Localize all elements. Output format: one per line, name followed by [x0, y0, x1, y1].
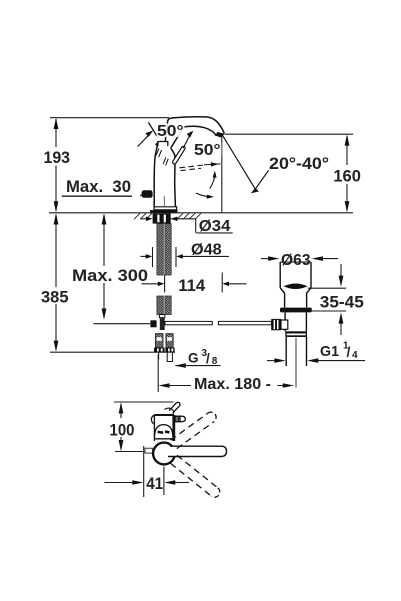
small arc right arrow — [196, 193, 211, 197]
svg-text:160: 160 — [333, 167, 361, 186]
svg-text:Max. 180 -: Max. 180 - — [194, 376, 271, 393]
mounting nut — [153, 213, 171, 223]
rod inlet box — [281, 320, 288, 329]
hose end right — [166, 334, 173, 348]
dimension 114 — [142, 273, 247, 293]
deck hatching left — [134, 213, 152, 219]
braided hoses lower segment — [157, 296, 163, 315]
spout left edge — [165, 122, 167, 142]
rod knurled nut at drain — [271, 319, 281, 330]
body collar bar — [158, 142, 168, 147]
100 top reference line — [114, 401, 174, 403]
svg-text:Max. 300: Max. 300 — [72, 266, 148, 285]
drain flange gasket — [280, 308, 312, 313]
dimension Max180 — [157, 355, 159, 392]
spout outer curve — [168, 117, 225, 134]
drain plug lens — [284, 283, 308, 289]
svg-text:41: 41 — [146, 474, 163, 493]
arrow 160 top — [345, 134, 350, 145]
braided hoses upper segment — [157, 224, 163, 275]
dimension Ø63 — [261, 258, 274, 260]
rod cross fitting — [160, 318, 165, 330]
faucet body top view — [151, 408, 185, 441]
handle direction line + arrow — [183, 135, 190, 148]
body right edge — [171, 148, 176, 207]
pop-up knob left — [142, 190, 153, 198]
svg-text:4: 4 — [352, 350, 358, 361]
dimension 385 vertical line — [55, 215, 57, 287]
385 bottom reference line — [50, 351, 175, 353]
handle dashed pill down — [171, 455, 220, 497]
spout outlet level line (160 top ref) — [225, 133, 353, 135]
drain lower nut — [285, 331, 307, 337]
svg-text:100: 100 — [110, 420, 135, 439]
rod block under hoses — [159, 315, 164, 318]
spout inner curve — [171, 126, 217, 148]
handle dashed pill up — [171, 412, 217, 448]
dimension 35-45 — [308, 287, 346, 289]
deck hatching right — [177, 213, 201, 219]
svg-text:/: / — [347, 344, 351, 360]
svg-text:114: 114 — [178, 276, 206, 295]
svg-text:35-45: 35-45 — [320, 293, 364, 312]
handle joystick outline — [174, 148, 183, 162]
svg-text:G: G — [188, 350, 199, 365]
rod thick segment 2 — [218, 321, 271, 324]
body hatch marks — [156, 149, 168, 166]
arrowheads group — [54, 118, 350, 352]
pivot knob stub left — [145, 448, 153, 453]
G1 1/4 tube arrows — [267, 360, 279, 362]
collar dark mark — [156, 144, 158, 146]
G3/8 leader + arrow — [176, 365, 221, 367]
Max.30 underline — [62, 195, 150, 197]
svg-text:/: / — [206, 351, 210, 366]
svg-text:50°: 50° — [194, 142, 221, 159]
spout vertical reference line — [221, 135, 223, 212]
rod thick segment 1 — [165, 321, 212, 324]
svg-text:Ø48: Ø48 — [191, 241, 222, 258]
dimension 193 vertical line — [55, 119, 57, 147]
arrow Max300 top — [102, 213, 107, 224]
dimension 100 vertical — [120, 404, 122, 418]
left arc arrow line — [138, 136, 148, 147]
dimension Ø34 arrows — [141, 219, 233, 233]
halo 50 first — [157, 124, 185, 138]
svg-text:Max. 30: Max. 30 — [66, 177, 131, 196]
stream diagonal line — [222, 135, 256, 190]
arrow Max300 bottom — [102, 309, 107, 320]
phantom tilted handle line — [148, 122, 157, 137]
hose nut left — [154, 348, 165, 353]
drain lower walls — [284, 293, 286, 308]
text Max. 300 white halo — [70, 266, 150, 283]
svg-text:20°-40°: 20°-40° — [269, 154, 329, 173]
handle solid pill — [168, 446, 227, 456]
arrow 385 bottom — [54, 341, 59, 352]
arrow 193 top — [54, 118, 59, 129]
knurl marks on aerator — [175, 416, 178, 422]
svg-text:Ø34: Ø34 — [199, 218, 231, 235]
arrow 385 top — [54, 213, 59, 224]
rod clamp — [150, 320, 156, 327]
hose nut right — [165, 348, 174, 353]
base plate — [154, 207, 177, 210]
arrow 193 bottom — [54, 201, 59, 212]
svg-text:8: 8 — [212, 356, 218, 367]
body left edge — [154, 142, 158, 207]
halo 50 second — [194, 143, 222, 157]
drain upper walls — [279, 262, 281, 288]
spout stub top view — [169, 402, 180, 413]
aerator stub right — [174, 416, 185, 422]
svg-text:G1: G1 — [320, 343, 339, 360]
hose stub left — [158, 352, 160, 359]
dome hatch dashes — [158, 432, 170, 433]
counter/deck line — [49, 212, 353, 214]
base dark band — [150, 210, 178, 213]
tailpipe walls — [285, 337, 287, 366]
dimension Ø48 — [141, 247, 230, 267]
spout tip dark face — [215, 132, 224, 138]
hose end left — [155, 334, 163, 348]
dimension 41 — [143, 446, 145, 497]
20-40 leader line — [256, 171, 269, 189]
dimension Max300 vertical line — [103, 215, 105, 266]
svg-text:193: 193 — [44, 148, 71, 167]
svg-text:50°: 50° — [157, 123, 184, 140]
body centerline — [163, 196, 165, 207]
top reference line (spout height) — [50, 117, 169, 119]
arrow 160 bottom — [345, 201, 350, 212]
dimension 160 vertical line — [346, 136, 348, 165]
pop-up rod line thin left part — [93, 323, 150, 325]
dashed stream arrow — [180, 165, 205, 168]
drain centerline — [295, 338, 297, 388]
drain chamfer — [280, 288, 311, 293]
100 bottom reference line — [115, 451, 145, 453]
hose stub right tube — [167, 352, 172, 361]
pivot ring — [153, 443, 175, 465]
small arc up arrow — [210, 174, 215, 189]
svg-text:385: 385 — [41, 287, 69, 306]
dome arc — [155, 425, 173, 438]
20-40 leader arrowhead — [251, 188, 259, 194]
left arc arrowhead — [145, 130, 153, 137]
svg-text:Ø63: Ø63 — [281, 252, 311, 269]
drain sub-body — [284, 312, 286, 320]
